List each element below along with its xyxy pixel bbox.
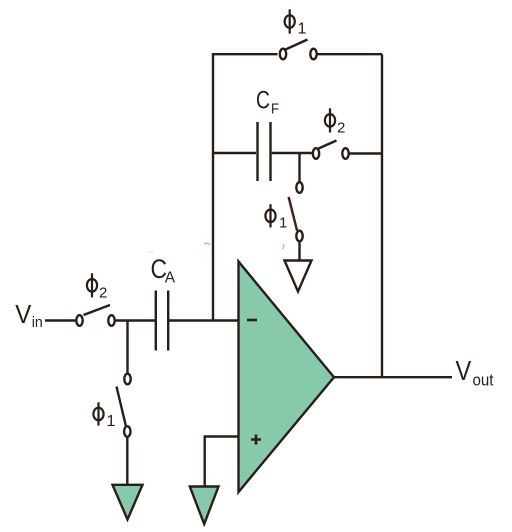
label phi2 feedback [325,108,335,132]
switch S4 phi2 input: contacts and lever [76,315,82,326]
svg-text:2: 2 [337,120,345,137]
svg-text:2: 2 [99,285,107,302]
ground (filled) at op-amp + [190,487,219,525]
ground (filled) [113,485,143,520]
svg-text:in: in [32,314,43,331]
op-amp U1 [239,262,335,493]
wire non-inverting input [205,437,239,487]
label phi1 top [285,9,295,33]
svg-text:A: A [165,270,176,287]
wire stub input node down [126,321,128,374]
capacitor CF plates [256,122,258,181]
svg-text:1: 1 [279,215,287,232]
op-amp plus sign [251,435,261,445]
wire left feedback rail [212,53,214,321]
switch S5 phi1 input: contacts and lever [124,374,130,385]
ground (open triangle) [285,261,312,292]
wire switch to CA [116,319,156,321]
svg-text:1: 1 [298,21,307,38]
wire switch to right rail [350,152,383,154]
watermark specks (faint red) [148,198,296,254]
wire stub node X down [298,153,300,182]
wire output [334,376,452,378]
switch S2 phi2 feedback: contacts and lever [313,148,319,159]
svg-text:V: V [15,301,31,329]
op-amp minus sign [247,319,257,322]
label phi2 input [87,273,97,297]
wire CF row left [213,152,256,154]
capacitor CA plates [155,291,157,351]
wire top rail right segment [318,53,383,55]
label phi1 input [93,402,103,425]
wire right rail [381,54,383,377]
wire top rail left segment [213,53,278,55]
svg-text:C: C [256,86,270,114]
svg-text:F: F [271,101,279,118]
svg-text:out: out [473,370,494,389]
svg-text:V: V [456,355,472,386]
wire Vin lead [45,319,76,321]
wire CF to switch [272,152,312,154]
svg-text:1: 1 [107,413,116,430]
switch S1 phi1 top: contact circles and lever [280,49,286,60]
wire to ground [298,242,300,261]
wire to ground [126,437,128,485]
label phi1 reset [265,204,275,227]
wire CA to op-amp inverting input [169,319,239,321]
switch S3 phi1 reset: contacts and lever [296,182,302,193]
